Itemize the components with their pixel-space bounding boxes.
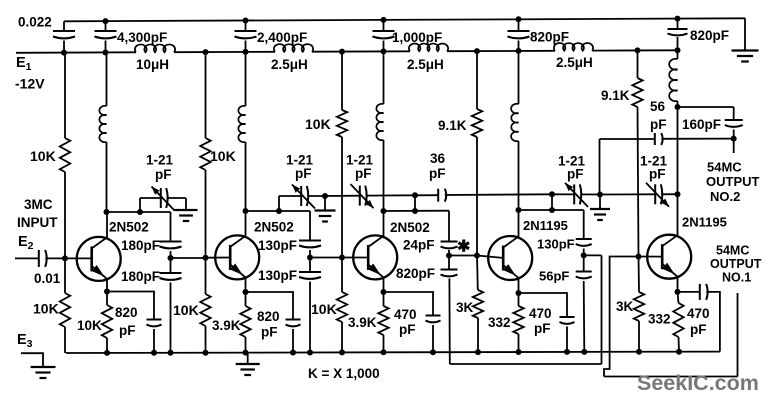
wire stage3 divider bottom crosses bus: [448, 279, 450, 365]
wire line A up to stage4 tap: [601, 255, 603, 364]
node stage3 tank corner: [381, 208, 387, 214]
svg-text:56pF: 56pF: [539, 269, 569, 284]
wire output2 top line: [678, 106, 734, 108]
svg-text:pF: pF: [355, 166, 372, 181]
wire stage1 tap to stage2 base: [171, 257, 206, 259]
ground top-right: [732, 49, 759, 51]
wire E1 rail segment 2: [174, 51, 275, 53]
svg-text:3.9K: 3.9K: [212, 318, 241, 333]
capacitor C21 160pF: [725, 119, 743, 121]
variable capacitor CV5 1-21pF: [654, 184, 656, 204]
resistor R11 3K (stage4 lower bias): [473, 290, 483, 318]
wire stage4 collector column: [518, 51, 520, 104]
svg-text:4,300pF: 4,300pF: [117, 30, 167, 45]
inductor L5 collector coil stage1: [99, 106, 106, 142]
resistor R7 10K (stage3 upper bias): [337, 110, 347, 137]
wire Q2 base lead: [206, 257, 230, 259]
wire E1 rail segment 5: [592, 49, 676, 51]
wire top bus right drop to ground: [744, 18, 746, 50]
svg-text:332: 332: [648, 312, 671, 327]
svg-text:10K: 10K: [33, 301, 59, 317]
node C8 bus dot: [151, 350, 157, 356]
svg-text:36: 36: [430, 151, 446, 166]
svg-text:820: 820: [115, 305, 138, 320]
node top bus junction x106: [103, 18, 109, 24]
wire mid tank line seg1: [279, 195, 301, 197]
capacitor C23 470pF (stage5 output): [699, 284, 701, 300]
wire stage3 bias mid: [341, 137, 343, 258]
node shared ground junction B: [597, 192, 603, 198]
wire stage3 divider top: [448, 211, 450, 242]
node Q1 emitter junction: [104, 289, 110, 295]
wire Q1 emitter resistor leads: [106, 292, 108, 306]
wire stage4 divider bottom: [583, 281, 586, 352]
wire Q1 emitter lead: [106, 279, 108, 292]
svg-text:OUTPUT: OUTPUT: [706, 174, 760, 189]
node shared ground junction A: [322, 193, 328, 199]
svg-text:0.01: 0.01: [34, 271, 61, 286]
capacitor C14 36pF: [437, 189, 439, 202]
svg-text:OUTPUT: OUTPUT: [710, 257, 762, 271]
node output2 junction: [731, 136, 737, 142]
capacitor C18 470pF (stage4 emitter): [560, 316, 575, 318]
svg-text:820pF: 820pF: [690, 28, 729, 43]
node stage3 bias bus dot: [339, 349, 345, 355]
wire stage1 emitter cap branch: [107, 292, 154, 320]
wire output1 terminal: [737, 293, 739, 377]
wire stage1 divider mid: [170, 251, 172, 273]
inductor L7 collector coil stage3: [376, 104, 383, 140]
resistor R5 10K (stage2 lower bias): [200, 294, 210, 326]
wire E1 rail segment 4: [447, 50, 555, 52]
wire C8 bottom: [153, 329, 155, 353]
svg-text:332: 332: [488, 315, 511, 330]
svg-text:9.1K: 9.1K: [438, 118, 467, 133]
wire stage2 tank line: [246, 210, 311, 212]
capacitor C1 0.022: [53, 30, 75, 32]
node stage2 bias bus dot: [203, 350, 209, 356]
wire stage3 tank line: [384, 210, 450, 212]
capacitor C3 2400pF: [235, 30, 257, 32]
inductor L8 collector coil stage4: [511, 104, 518, 141]
wire stage2 coil to tank: [245, 142, 247, 211]
wire output2 terminal stub: [733, 139, 735, 153]
svg-text:10K: 10K: [210, 148, 236, 164]
node stage5 emitter bus dot: [676, 349, 682, 355]
node stage3 tank stub upper: [412, 192, 418, 198]
node E1 junction x518: [516, 48, 522, 54]
node stage5 tank top junction: [675, 104, 681, 110]
wire C6 top lead: [677, 19, 679, 29]
variable capacitor CV3 1-21pF: [359, 186, 361, 206]
node stage1 base junction: [62, 255, 68, 261]
wire stage4 divider top: [583, 210, 585, 239]
svg-text:3K: 3K: [456, 300, 474, 315]
wire C5 820pF top lead: [518, 19, 520, 31]
svg-text:24pF: 24pF: [403, 238, 435, 253]
svg-text:0.022: 0.022: [18, 15, 52, 30]
wire 160pF bottom lead: [733, 130, 735, 139]
node stage1 divider tap: [168, 255, 174, 261]
capacitor C19 130pF (stage4 divider): [576, 238, 592, 240]
wire stage2 divider mid: [309, 250, 311, 272]
wire Q4 collector lead: [518, 210, 520, 237]
transistor Q2 2N502: [215, 235, 259, 279]
svg-text:54MC: 54MC: [716, 244, 749, 258]
wire stage3 bias to bus: [341, 258, 343, 293]
wire Q4 base lead: [477, 256, 503, 258]
wire stage3 coil to tank: [383, 140, 385, 211]
svg-text:160pF: 160pF: [682, 117, 721, 132]
wire C18 bottom: [566, 327, 568, 352]
node C11 bus dot: [290, 350, 296, 356]
resistor R8 10K (stage3 lower bias): [337, 292, 347, 322]
svg-text:2.5μH: 2.5μH: [271, 57, 308, 72]
svg-text:470: 470: [394, 307, 417, 322]
svg-text:-12V: -12V: [15, 76, 45, 92]
node stage2 divider bus dot: [307, 350, 313, 356]
ground E3: [31, 366, 56, 368]
node stage4 base junction: [474, 253, 480, 259]
wire Q3 base lead: [342, 257, 368, 259]
svg-text:10μH: 10μH: [136, 57, 169, 72]
resistor R4 10K (stage2 upper bias): [200, 138, 210, 170]
wire C4 1000pF bottom lead: [383, 41, 385, 52]
wire top supply bus: [64, 18, 745, 21]
wire C2 4300pF bottom lead: [105, 41, 107, 53]
wire stage2 divider bottom: [309, 282, 311, 353]
node stage3 tank stub lower: [412, 208, 418, 214]
resistor R13 9.1K (stage5 upper bias): [632, 78, 642, 107]
wire stage1 bias to bus: [64, 258, 66, 293]
resistor R15 332 (stage5 emitter): [673, 303, 683, 337]
inductor L1 10uH: [135, 44, 175, 52]
wire Q4 emitter lead: [518, 278, 520, 293]
node stage2 divider tap: [307, 255, 313, 261]
wire Q2 emitter resistor leads: [245, 292, 247, 306]
svg-text:pF: pF: [399, 322, 416, 337]
svg-text:470: 470: [687, 306, 710, 321]
wire C5 820pF bottom lead: [518, 41, 520, 51]
wire C3 2400pF bottom lead: [245, 41, 247, 52]
wire stage3 emitter cap branch: [384, 292, 434, 316]
variable capacitor CV1 1-21pF: [160, 188, 162, 208]
wire bottom bus ground stub: [247, 353, 249, 364]
inductor L9 collector coil stage5: [669, 59, 677, 101]
wire stage4 tank stub: [551, 194, 553, 210]
svg-text:470: 470: [529, 306, 552, 321]
node stage2 varcap stub junction: [276, 208, 282, 214]
wire stage4 bias column top: [476, 51, 478, 109]
ground varcap CV2/CV3: [315, 209, 336, 211]
wire Q1 collector lead: [106, 212, 108, 237]
svg-text:pF: pF: [155, 167, 172, 182]
wire stage5 coil to junction: [677, 101, 679, 107]
svg-text:pF: pF: [649, 167, 666, 182]
resistor R9 3.9K (stage3 emitter): [378, 306, 388, 335]
capacitor C16 24pF: [441, 241, 458, 243]
svg-text:pF: pF: [534, 321, 551, 336]
wire E2 input line: [15, 257, 39, 259]
svg-text:54MC: 54MC: [707, 160, 742, 175]
svg-text:3.9K: 3.9K: [348, 315, 377, 330]
capacitor C5 820pF: [508, 30, 530, 32]
wire Q4 emitter resistor leads: [518, 293, 520, 306]
node stage4 tank corner: [516, 207, 522, 213]
resistor R10 9.1K (stage4 upper bias): [472, 109, 482, 137]
capacitor C20 56pF (stage4 divider): [576, 271, 592, 273]
wire stage4 bias mid: [476, 137, 478, 256]
wire C2 4300pF top lead: [105, 21, 107, 31]
node stage4 emitter bus dot: [516, 349, 522, 355]
wire stage1 collector column: [106, 53, 108, 107]
svg-text:1-21: 1-21: [146, 153, 174, 168]
svg-text:10K: 10K: [30, 148, 56, 164]
wire stage2 varcap stub: [278, 196, 280, 211]
svg-text:pF: pF: [119, 323, 136, 338]
wire stage2 collector column: [245, 52, 247, 106]
svg-text:3K: 3K: [616, 299, 634, 314]
svg-text:820pF: 820pF: [530, 30, 569, 45]
node stage5 bias bus dot: [636, 349, 642, 355]
wire feedback line A: [450, 363, 602, 365]
capacitor C6 820pF: [668, 28, 688, 30]
wire 56pF line: [661, 138, 733, 140]
wire mid line to 36pF: [415, 194, 438, 196]
wire stage4 tap jog: [584, 254, 602, 256]
node top bus junction x518: [516, 16, 522, 22]
node E1/C1 junction: [61, 50, 67, 56]
svg-text:56: 56: [650, 99, 666, 114]
node stage1 emitter bus dot: [104, 350, 110, 356]
svg-text:2N1195: 2N1195: [523, 218, 568, 233]
capacitor C7 0.01 input: [38, 250, 40, 267]
resistor R6 3.9K (stage2 emitter): [240, 306, 250, 337]
svg-text:10K: 10K: [77, 318, 102, 333]
svg-text:10K: 10K: [173, 302, 199, 318]
svg-text:NO.1: NO.1: [722, 271, 751, 285]
node top bus junction x384: [381, 17, 387, 23]
wire stage2 bias mid: [205, 170, 207, 258]
node stage5 base junction: [636, 254, 642, 260]
resistor R12 332 (stage4 emitter): [513, 306, 523, 334]
transistor Q3 2N502: [353, 235, 397, 279]
wire stage5 bias mid: [638, 107, 639, 257]
node C15 bus dot: [430, 349, 436, 355]
ground stage1 varcap: [175, 209, 198, 211]
node C18 bus dot: [564, 349, 570, 355]
wire stage3 tank stub: [414, 195, 416, 211]
node stage4 divider bus dot: [581, 349, 587, 355]
wire C23 to bus end: [706, 292, 720, 352]
svg-text:2,400pF: 2,400pF: [257, 30, 307, 45]
wire C11 bottom: [292, 329, 294, 353]
node E1 -12V rail segment 1: [16, 51, 136, 54]
wire bottom ground bus: [66, 352, 720, 353]
wire stage2 tap to stage3 base: [310, 257, 342, 259]
svg-text:180pF: 180pF: [121, 269, 160, 284]
wire stage3 tap to stage4 base: [449, 255, 477, 257]
wire stage4 tank line: [519, 209, 584, 211]
svg-text:NO.2: NO.2: [710, 189, 740, 204]
capacitor 0.022 bus corner: [63, 21, 65, 31]
wire stage5 collector column: [677, 107, 679, 237]
wire stage1 tank line: [107, 211, 171, 213]
variable capacitor CV4 1-21pF: [573, 184, 575, 204]
wire C15 bottom: [432, 325, 434, 352]
wire stage5 collector column top: [677, 50, 679, 59]
wire 56pF ground drop: [599, 139, 601, 195]
transistor Q5 2N1195: [647, 235, 691, 279]
wire ground stub A: [324, 196, 326, 211]
inductor L3 2.5uH: [409, 44, 448, 52]
wire Q5 base lead: [639, 256, 663, 258]
node stage5 E1 dot: [635, 47, 641, 53]
inductor L6 collector coil stage2: [238, 106, 245, 142]
svg-text:2N502: 2N502: [109, 220, 149, 235]
wire stage5 bias column top: [637, 50, 639, 78]
svg-text:3MC: 3MC: [24, 197, 53, 212]
wire stage1 divider bottom: [170, 283, 172, 353]
transistor Q4 2N1195: [488, 236, 532, 280]
node stage4 divider tap: [581, 252, 587, 258]
node stage4 tank stub upper: [549, 191, 555, 197]
svg-text:9.1K: 9.1K: [601, 88, 630, 103]
wire stage4 coil to tank: [518, 141, 520, 210]
wire E1 rail segment 3: [312, 50, 410, 52]
wire mid line seg5: [600, 193, 655, 195]
capacitor C13 130pF lower: [299, 271, 321, 273]
wire stage1 varcap stub: [139, 198, 141, 212]
wire stage3 divider mid: [448, 250, 450, 270]
node E1 junction x246: [243, 49, 249, 55]
capacitor C4 1000pF: [373, 30, 395, 32]
svg-text:130pF: 130pF: [258, 268, 297, 283]
node stage4 tank stub lower: [549, 207, 555, 213]
svg-text:pF: pF: [429, 166, 446, 181]
wire stage1 varcap line: [140, 197, 160, 199]
capacitor C11 820pF (stage2 emitter): [286, 319, 301, 321]
resistor R2 10K (stage1 lower bias): [60, 293, 70, 327]
wire mid tank line seg2: [325, 195, 359, 197]
node stage5 tank varcap dot: [675, 191, 681, 197]
capacitor C10 180pF lower: [160, 272, 182, 274]
node stage2 E1 dot: [203, 49, 209, 55]
capacitor C15 470pF (stage3 emitter): [426, 315, 441, 317]
capacitor C17 820pF (stage3 divider): [441, 269, 458, 271]
wire stage1 coil to tank: [106, 142, 108, 212]
capacitor C12 130pF upper: [299, 240, 321, 242]
node stage2 base junction: [203, 255, 209, 261]
node E1 junction x106: [103, 50, 109, 56]
svg-text:INPUT: INPUT: [17, 215, 58, 230]
node stage2 emitter bus dot: [243, 350, 249, 356]
svg-text:130pF: 130pF: [537, 237, 575, 252]
svg-text:130pF: 130pF: [258, 238, 297, 253]
wire C1 bottom: [63, 41, 65, 53]
wire mid line seg4: [552, 193, 574, 195]
wire C3 2400pF top lead: [245, 21, 247, 32]
wire Q3 collector lead: [383, 211, 385, 236]
wire input cap to base: [45, 257, 92, 259]
svg-text:820: 820: [257, 309, 280, 324]
wire stage5 emitter cap line: [678, 291, 700, 293]
node E1 junction x384: [381, 48, 387, 54]
wire stage2 emitter cap branch: [246, 292, 294, 320]
wire Q3 emitter lead: [383, 277, 385, 292]
ground bottom bus: [236, 363, 260, 365]
svg-text:1,000pF: 1,000pF: [392, 30, 442, 45]
capacitor C8 820pF (stage1 emitter): [147, 319, 162, 321]
wire stage4 divider mid: [583, 249, 585, 272]
wire stage1 varcap ground stub: [185, 198, 187, 210]
wire Q2 emitter lead: [245, 277, 247, 292]
svg-text:pF: pF: [295, 166, 312, 181]
capacitor C22 56pF: [654, 133, 656, 145]
wire C6 bottom lead: [677, 37, 679, 50]
ground varcap CV4/CV5: [590, 208, 610, 210]
node Q5 emitter junction: [675, 289, 681, 295]
wire 160pF top lead: [733, 107, 735, 120]
wire stage1 divider top: [170, 212, 172, 242]
node stage2 tank corner: [243, 208, 249, 214]
wire stage4 emitter cap branch: [519, 293, 568, 317]
wire stage5 bias to bus: [638, 257, 641, 293]
node stage4 bias bus dot: [475, 349, 481, 355]
wire stage3 bias column top: [341, 52, 343, 110]
wire stage1 bias column top: [64, 53, 66, 138]
svg-text:10K: 10K: [305, 116, 331, 132]
wire Q2 collector lead: [245, 211, 247, 236]
wire Q3 emitter resistor leads: [383, 292, 385, 306]
node stage1 divider bus dot: [168, 350, 174, 356]
svg-text:10K: 10K: [311, 301, 337, 317]
node stage1 varcap stub junction: [137, 209, 143, 215]
svg-text:pF: pF: [261, 325, 278, 340]
svg-text:2.5μH: 2.5μH: [407, 57, 444, 72]
wire stage2 bias column top: [205, 52, 207, 138]
resistor R3 10K (stage1 emitter): [102, 305, 112, 338]
svg-text:✱: ✱: [457, 239, 470, 256]
resistor R1 10K (stage1 upper bias): [60, 138, 70, 172]
wire stage2 divider top: [309, 211, 311, 241]
variable capacitor CV2 1-21pF: [300, 186, 302, 206]
transistor Q1 2N502: [77, 237, 121, 281]
node stage4 E1 dot: [474, 48, 480, 54]
node E3 stub: [21, 353, 43, 367]
resistor R14 3K (stage5 lower bias): [634, 292, 644, 321]
wire stage2 bias to bus: [205, 258, 207, 294]
inductor L4 2.5uH: [554, 43, 593, 51]
wire stage1 bias column mid: [64, 172, 66, 258]
svg-text:820pF: 820pF: [396, 266, 435, 281]
wire ground stub B: [599, 195, 601, 210]
node E1 end junction: [675, 47, 681, 53]
wire Q5 emitter lead: [677, 277, 679, 292]
inductor L2 2.5uH: [274, 44, 313, 52]
svg-text:180pF: 180pF: [121, 238, 160, 253]
wire C4 1000pF top lead: [383, 20, 385, 31]
capacitor C2 4300pF: [95, 30, 117, 32]
capacitor C9 180pF upper: [160, 241, 182, 243]
svg-text:2N502: 2N502: [254, 220, 294, 235]
svg-text:K = X 1,000: K = X 1,000: [308, 366, 380, 381]
node stage1 tank corner: [104, 209, 110, 215]
svg-text:pF: pF: [690, 322, 707, 337]
wire output line B: [604, 376, 738, 378]
svg-text:pF: pF: [650, 117, 667, 132]
svg-text:pF: pF: [567, 167, 584, 182]
